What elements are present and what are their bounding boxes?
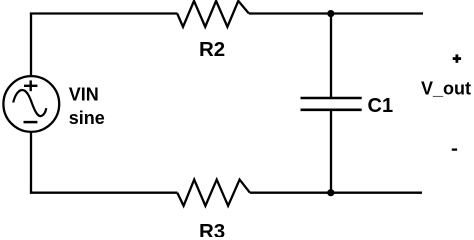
svg-text:R3: R3: [199, 220, 225, 237]
wire top-right horizontal: [249, 12, 423, 14]
wire bottom-left horizontal: [30, 192, 178, 194]
wire bottom-right horizontal: [250, 192, 422, 194]
node junction bottom: [327, 189, 334, 196]
wire top-left horizontal: [30, 12, 178, 14]
source minus sign: [24, 121, 38, 124]
voltage source VIN body: [3, 76, 59, 132]
source sine wave: [13, 90, 46, 116]
wire capacitor lower lead: [330, 110, 332, 193]
svg-text:V_out: V_out: [421, 78, 471, 98]
node junction top: [327, 10, 334, 17]
label + output: [453, 54, 461, 62]
capacitor C1: [301, 98, 362, 110]
svg-text:R2: R2: [199, 38, 225, 61]
svg-text:VIN: VIN: [69, 85, 99, 105]
svg-text:C1: C1: [368, 95, 394, 117]
svg-text:sine: sine: [69, 108, 105, 128]
resistor R3: [177, 180, 250, 206]
source plus sign: [24, 80, 37, 91]
resistor R2: [177, 1, 249, 27]
wire capacitor upper lead: [330, 14, 332, 99]
label - output: [452, 148, 457, 150]
wire left vertical: [30, 14, 32, 193]
